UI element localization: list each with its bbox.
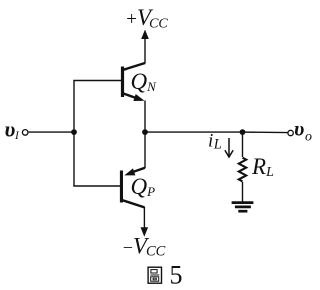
svg-text:QP: QP [131,174,156,199]
svg-text:QN: QN [131,69,158,94]
svg-text:iL: iL [208,131,222,153]
wire QN collector vertical [144,36,146,64]
output terminal circle [288,130,293,135]
wire left rail vertical [73,81,75,187]
node A junction dot (input rail) [71,129,77,135]
svg-text:I: I [14,130,20,142]
caption glyph 圖 (drawn) [148,267,161,283]
ground [232,203,254,212]
+VCC supply arrow [141,30,149,40]
wire QN emitter to node B [144,101,146,133]
svg-text:5: 5 [170,260,183,289]
wire node C to resistor [242,132,244,157]
current arrow iL [225,138,233,157]
transistor Q_P (PNP) [120,168,145,208]
svg-text:−VCC: −VCC [123,234,166,260]
wire base QP [73,185,120,187]
svg-text:υ: υ [294,117,304,141]
svg-text:o: o [305,130,312,145]
resistor RL [239,158,246,182]
svg-text:+VCC: +VCC [126,5,168,31]
wire node B to load node [145,131,243,133]
wire load node to output terminal [243,131,288,134]
-VCC supply arrow [141,227,149,237]
wire input to node [29,131,74,133]
svg-text:RL: RL [251,154,274,180]
transistor Q_N (NPN) [121,63,145,101]
svg-text:υ: υ [5,117,16,142]
input terminal circle [22,130,28,136]
wire resistor to ground [242,182,244,202]
wire QP collector vertical [143,207,145,230]
node B junction dot (emitters/output) [142,129,148,135]
wire base QN [73,80,122,82]
wire QP emitter from node B [144,132,146,168]
node C junction dot (load tap) [240,129,246,135]
